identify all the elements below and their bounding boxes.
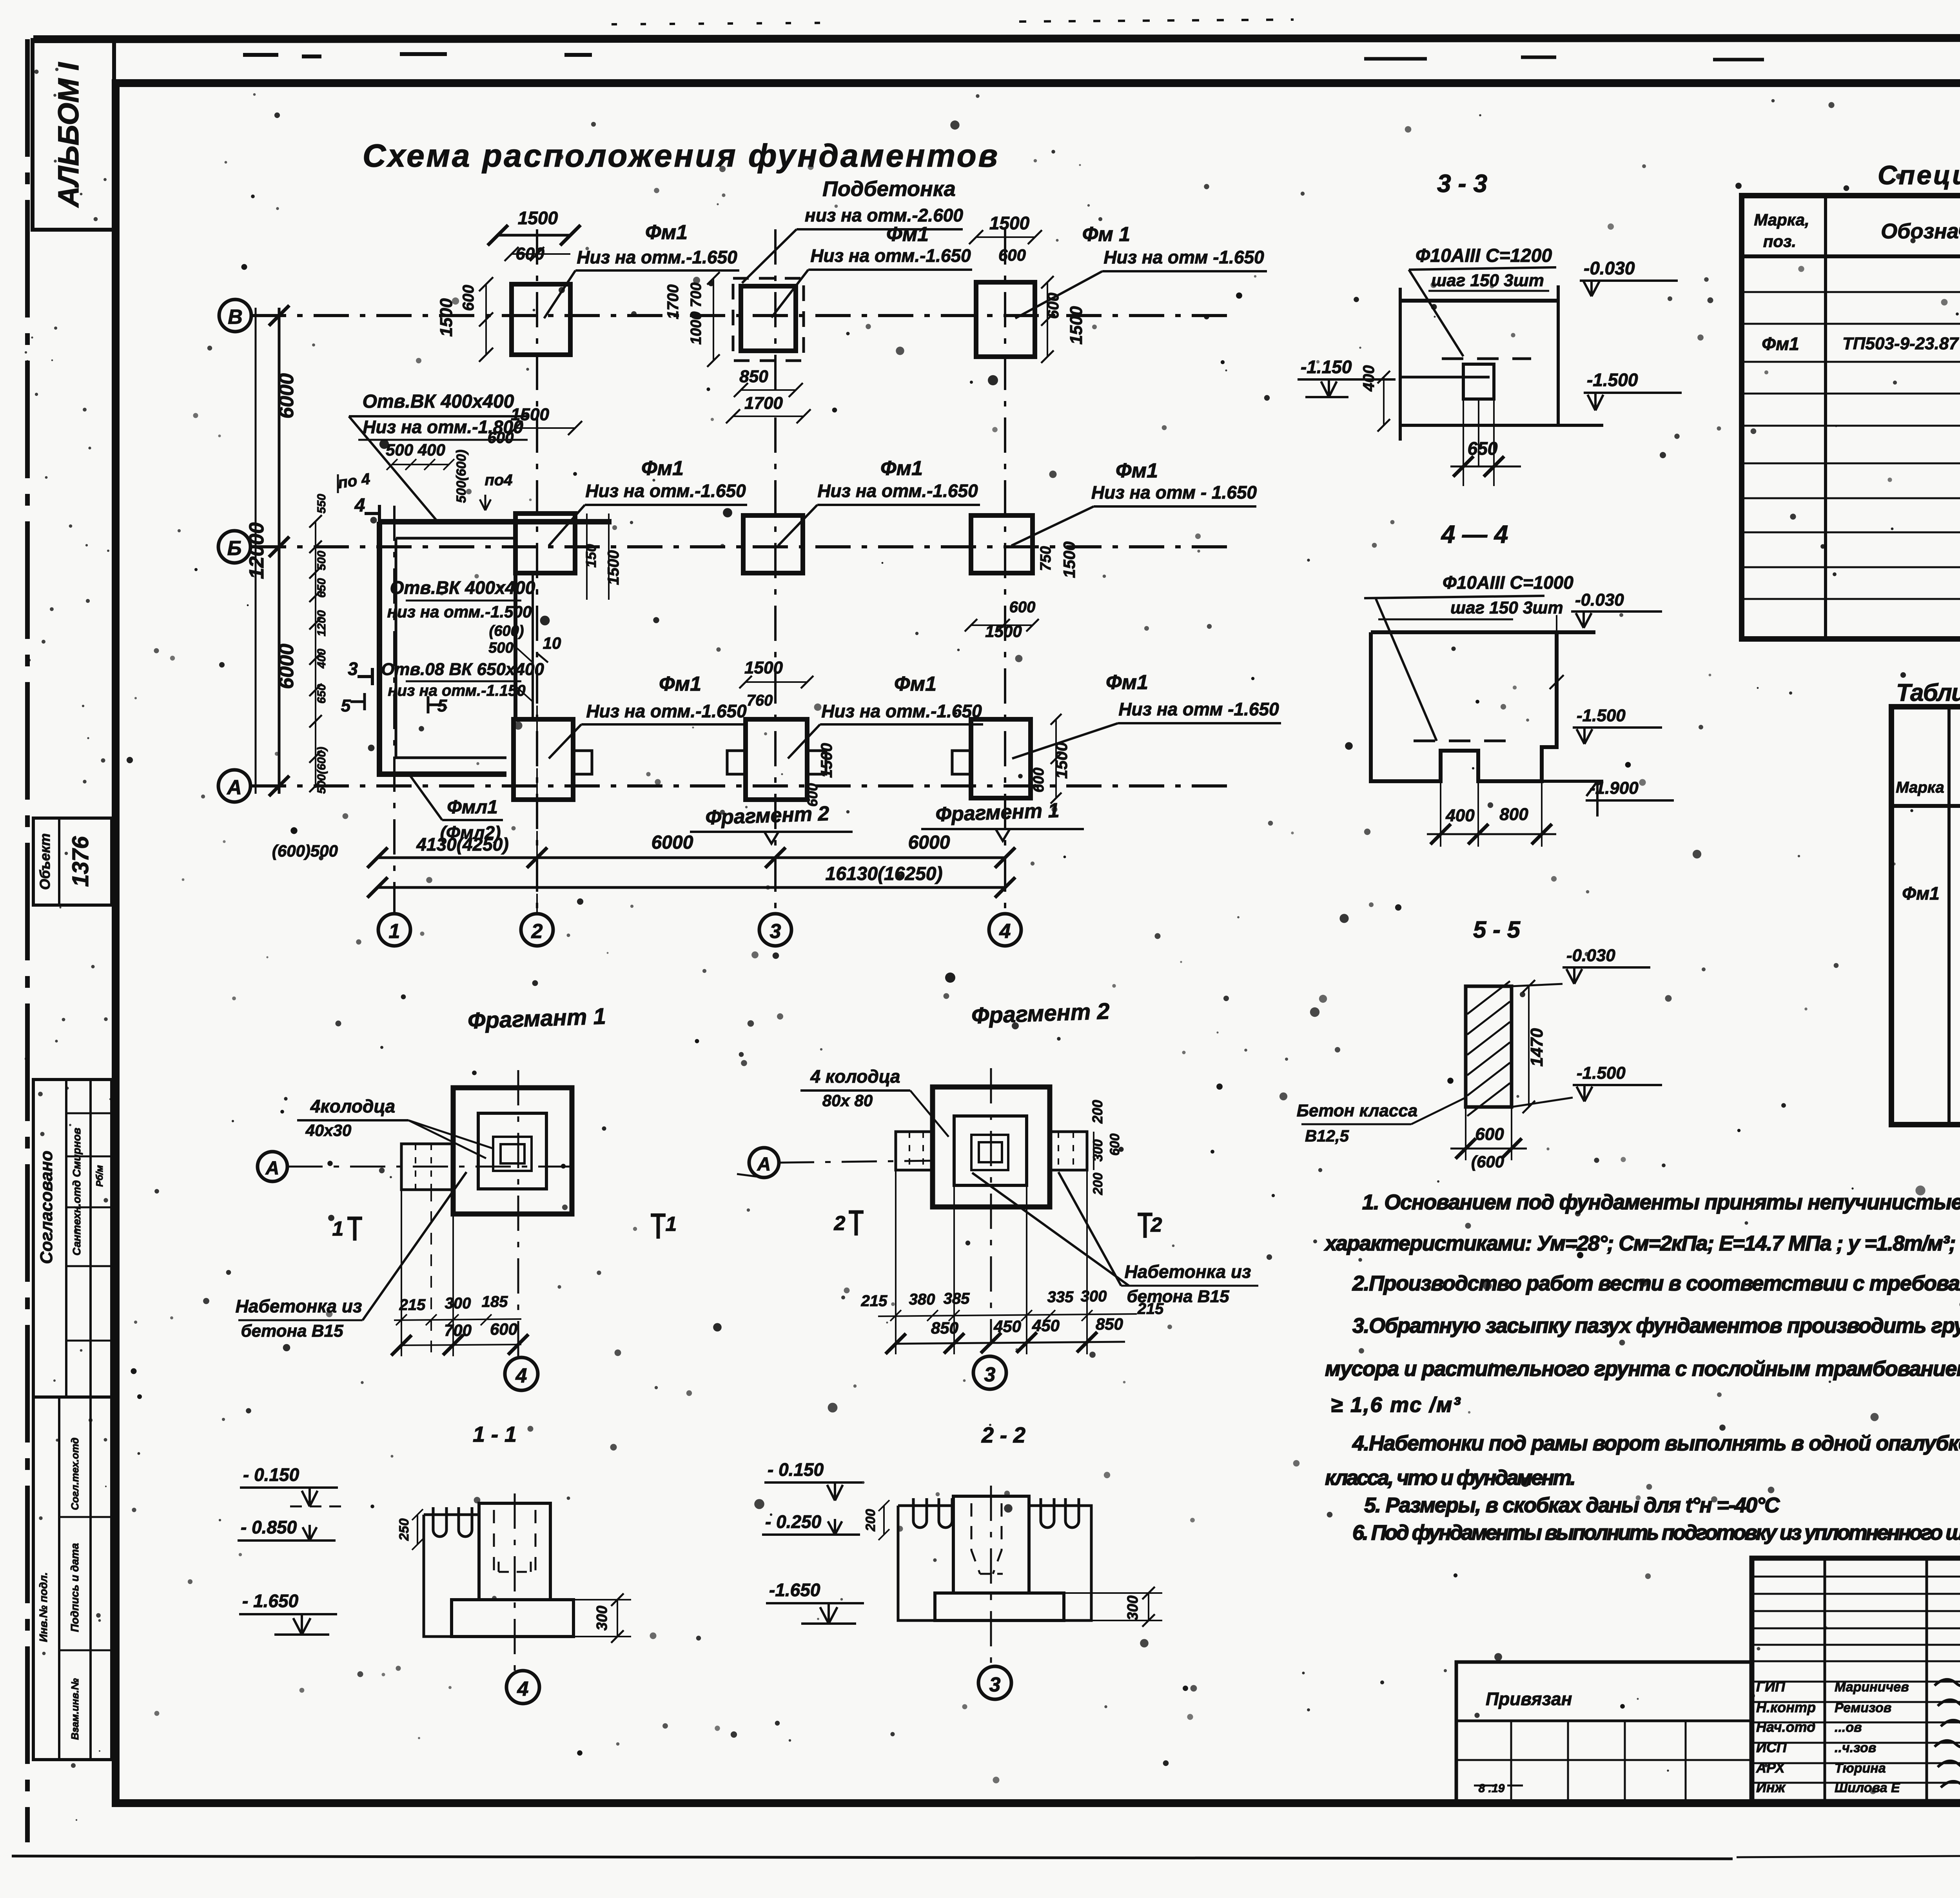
svg-text:450: 450 xyxy=(993,1317,1021,1335)
svg-text:Ф10АIII С=1200: Ф10АIII С=1200 xyxy=(1416,245,1552,266)
axis bubble В xyxy=(219,299,251,332)
svg-text:300: 300 xyxy=(1091,1140,1105,1162)
svg-text:850: 850 xyxy=(1096,1315,1123,1333)
svg-text:185: 185 xyxy=(482,1293,508,1310)
section 1-1 column xyxy=(479,1503,550,1600)
svg-text:4.Набетонки под рамы ворот вып: 4.Набетонки под рамы ворот выполнять в о… xyxy=(1352,1432,1960,1455)
svg-text:Низ на отм.-1.800: Низ на отм.-1.800 xyxy=(363,417,523,437)
foundation Фм1 at Б/4 xyxy=(971,515,1033,573)
svg-text:Согл.тех.отд: Согл.тех.отд xyxy=(69,1437,81,1510)
svg-text:-0.030: -0.030 xyxy=(1566,946,1615,965)
column line 3 xyxy=(774,229,777,914)
svg-text:...ов: ...ов xyxy=(1835,1720,1862,1735)
foundation Фм1 at В/3 with подбетонка xyxy=(733,278,804,361)
foundation Фм1 at А/4 xyxy=(971,719,1031,798)
svg-text:16130(16250): 16130(16250) xyxy=(826,864,943,884)
svg-text:- 1.650: - 1.650 xyxy=(242,1591,299,1611)
svg-text:Ф10АIII С=1000: Ф10АIII С=1000 xyxy=(1443,572,1573,593)
svg-text:650: 650 xyxy=(315,684,328,704)
svg-text:1. Основанием под фундаменты п: 1. Основанием под фундаменты приняты неп… xyxy=(1362,1190,1960,1214)
svg-text:Фм1: Фм1 xyxy=(659,673,701,695)
foundation Фм1 at Б/3 xyxy=(743,515,803,573)
svg-text:1500: 1500 xyxy=(1060,541,1078,578)
secondary dim chain near building xyxy=(315,521,316,788)
bottom dimension line 16130 xyxy=(377,886,1005,889)
svg-text:150: 150 xyxy=(583,544,599,568)
scan dotted marks top xyxy=(612,23,843,24)
привязан table frame xyxy=(1456,1662,1752,1802)
section 4-4 leader xyxy=(1376,599,1437,741)
svg-text:2.Производство работ вести в с: 2.Производство работ вести в соответстви… xyxy=(1352,1272,1960,1295)
svg-text:1500: 1500 xyxy=(818,743,835,778)
svg-text:500: 500 xyxy=(315,551,328,570)
svg-text:≥ 1,6 тс /м³: ≥ 1,6 тс /м³ xyxy=(1331,1393,1461,1417)
section 2-2 centerline xyxy=(990,1486,992,1666)
svg-text:200: 200 xyxy=(863,1509,878,1532)
section 3-3 slab outline xyxy=(1399,288,1402,441)
title block signature squiggles xyxy=(1935,1678,1960,1686)
svg-text:-1.650: -1.650 xyxy=(769,1580,820,1600)
svg-text:Шилова Е: Шилова Е xyxy=(1835,1780,1900,1795)
svg-text:550: 550 xyxy=(315,494,328,514)
svg-text:600: 600 xyxy=(1107,1134,1122,1156)
svg-text:Инж: Инж xyxy=(1756,1779,1786,1795)
svg-text:Фм1: Фм1 xyxy=(1116,459,1158,482)
sidebar box АЛЬБОМ I xyxy=(33,40,114,230)
foundation Фмл1 at А/2 xyxy=(514,719,573,800)
svg-text:1000 700: 1000 700 xyxy=(688,283,704,345)
svg-text:Б: Б xyxy=(227,537,242,560)
svg-text:2: 2 xyxy=(531,920,543,943)
svg-text:Фрагмант 1: Фрагмант 1 xyxy=(467,1003,606,1034)
fragment 1 набетонка strip plan xyxy=(401,1144,453,1190)
svg-text:500 400: 500 400 xyxy=(386,441,445,459)
svg-text:4 — 4: 4 — 4 xyxy=(1441,520,1508,548)
svg-text:3: 3 xyxy=(770,920,781,943)
svg-text:200: 200 xyxy=(1091,1173,1105,1196)
svg-text:Фм1: Фм1 xyxy=(1762,334,1799,354)
column bubble 3 xyxy=(759,914,791,946)
svg-text:Тюрина: Тюрина xyxy=(1835,1761,1886,1776)
fragment 2 набетонка strips left/right xyxy=(896,1132,933,1170)
foundation Фм1 at А/3 xyxy=(746,719,807,800)
svg-text:250: 250 xyxy=(397,1519,412,1541)
svg-text:300: 300 xyxy=(445,1295,471,1312)
svg-text:- 0.150: - 0.150 xyxy=(243,1464,299,1485)
svg-text:600: 600 xyxy=(460,285,477,311)
svg-text:3: 3 xyxy=(984,1363,996,1386)
svg-text:5 - 5: 5 - 5 xyxy=(1473,916,1521,943)
svg-text:Фм1: Фм1 xyxy=(641,457,684,480)
section 4-4 vertical dim line xyxy=(1556,615,1557,747)
svg-text:Низ на отм.-1.650: Низ на отм.-1.650 xyxy=(577,247,737,267)
title block signature rows upper grid xyxy=(1752,1576,1960,1578)
section 2-2 column bubble 3 xyxy=(978,1666,1011,1699)
svg-text:500(600): 500(600) xyxy=(454,450,469,503)
svg-text:характеристиками: Ум=28°; См=2: характеристиками: Ум=28°; См=2кПа; Е=14.… xyxy=(1324,1232,1960,1255)
section 3-3 leader xyxy=(1409,270,1463,356)
fragment 1 anchor squares xyxy=(493,1137,532,1171)
svg-text:Отв.ВК 400х400: Отв.ВК 400х400 xyxy=(363,391,514,412)
svg-text:(600: (600 xyxy=(1471,1152,1504,1171)
section 3-3 anchor square xyxy=(1463,364,1494,399)
svg-text:(600): (600) xyxy=(489,623,524,639)
title block signature columns xyxy=(1824,1558,1826,1802)
fragment 2 column bubble 3 xyxy=(973,1356,1006,1389)
section 5-5 hatched concrete column xyxy=(1466,986,1512,1107)
svg-text:Фрагмент 1: Фрагмент 1 xyxy=(935,799,1060,826)
section 1-1 rebar hooks xyxy=(433,1507,446,1537)
bottom dimension line 4130/6000/6000 xyxy=(377,856,1005,859)
svg-text:Низ на отм -1.650: Низ на отм -1.650 xyxy=(1103,247,1264,267)
sheet outer top border xyxy=(33,38,1960,39)
svg-text:4: 4 xyxy=(999,920,1011,943)
title block signature rows lower xyxy=(1752,1681,1960,1683)
svg-text:215: 215 xyxy=(399,1296,426,1314)
svg-text:4колодца: 4колодца xyxy=(310,1096,395,1116)
svg-text:В: В xyxy=(228,306,243,328)
svg-text:1500: 1500 xyxy=(989,213,1030,233)
svg-text:300: 300 xyxy=(594,1606,610,1630)
svg-text:Низ на отм - 1.650: Низ на отм - 1.650 xyxy=(1091,482,1257,503)
svg-text:Обозначение: Обозначение xyxy=(1881,220,1960,243)
svg-text:ТП503-9-23.87: ТП503-9-23.87 xyxy=(1842,334,1959,353)
svg-text:Фм1: Фм1 xyxy=(1902,883,1940,904)
svg-text:-0.030: -0.030 xyxy=(1575,590,1624,610)
svg-text:Набетонка из: Набетонка из xyxy=(236,1296,362,1316)
wall pier on column 2 between Б and А xyxy=(514,573,517,721)
svg-text:1200: 1200 xyxy=(315,610,328,636)
dim 1500 above В/2 xyxy=(498,234,570,237)
sheet outer left border xyxy=(25,39,30,1842)
svg-text:700: 700 xyxy=(444,1321,472,1339)
column line 2 xyxy=(536,229,538,914)
column bubble 1 xyxy=(378,914,410,946)
svg-text:1470: 1470 xyxy=(1527,1028,1546,1067)
scan edge marks bottom xyxy=(12,1856,1733,1859)
svg-text:Фм1: Фм1 xyxy=(645,221,688,244)
svg-text:1500: 1500 xyxy=(437,298,456,337)
svg-text:А: А xyxy=(757,1154,771,1175)
svg-text:6000: 6000 xyxy=(275,373,298,419)
svg-text:Низ на отм.-1.650: Низ на отм.-1.650 xyxy=(821,701,982,721)
svg-text:..ч.зов: ..ч.зов xyxy=(1835,1740,1876,1755)
svg-text:5. Размеры, в скобках даны для: 5. Размеры, в скобках даны для t°н =-40°… xyxy=(1364,1493,1780,1517)
svg-text:500(600): 500(600) xyxy=(315,747,328,794)
svg-text:Бетон класса: Бетон класса xyxy=(1297,1101,1418,1120)
svg-text:6000: 6000 xyxy=(275,644,298,689)
column bubble 2 xyxy=(521,914,553,946)
svg-text:300: 300 xyxy=(1125,1595,1141,1620)
svg-text:600: 600 xyxy=(1009,599,1036,616)
sidebar approval stamp Согласовано xyxy=(33,1080,112,1397)
svg-text:Марка: Марка xyxy=(1896,779,1944,796)
svg-text:760: 760 xyxy=(747,692,773,709)
svg-text:1500: 1500 xyxy=(518,208,558,228)
svg-text:-1.500: -1.500 xyxy=(1577,706,1626,725)
svg-text:1500: 1500 xyxy=(605,550,622,585)
svg-text:2: 2 xyxy=(834,1212,846,1235)
section 4-4 body outline xyxy=(1371,632,1595,781)
left vertical dimension line 6000/6000 xyxy=(278,308,281,794)
svg-text:Низ на отм.-1.650: Низ на отм.-1.650 xyxy=(810,245,971,266)
svg-text:4 колодца: 4 колодца xyxy=(810,1066,900,1087)
svg-text:- 0.150: - 0.150 xyxy=(768,1459,824,1480)
left vertical dimension line 12000 xyxy=(255,308,257,794)
svg-text:215: 215 xyxy=(1137,1300,1164,1317)
section 2-2 rebar hooks xyxy=(913,1498,927,1528)
section 1-1 excavation outline xyxy=(424,1515,573,1637)
svg-text:Низ на отм.-1.650: Низ на отм.-1.650 xyxy=(817,481,978,501)
svg-text:800: 800 xyxy=(1499,805,1528,824)
svg-text:40х30: 40х30 xyxy=(305,1121,352,1140)
svg-text:6000: 6000 xyxy=(652,832,693,853)
svg-text:Фрагмент 2: Фрагмент 2 xyxy=(705,802,829,829)
axis line Б xyxy=(251,545,1233,548)
svg-text:Фм1: Фм1 xyxy=(886,223,929,246)
svg-text:Фрагмент 2: Фрагмент 2 xyxy=(971,998,1110,1029)
svg-text:1: 1 xyxy=(332,1218,344,1240)
svg-text:3.Обратную засыпку пазух фунда: 3.Обратную засыпку пазух фундаментов про… xyxy=(1352,1314,1960,1337)
svg-text:400: 400 xyxy=(315,649,328,669)
svg-text:-1.500: -1.500 xyxy=(1577,1063,1626,1083)
svg-text:5: 5 xyxy=(341,696,351,715)
svg-text:1 - 1: 1 - 1 xyxy=(473,1422,517,1446)
svg-text:1700: 1700 xyxy=(744,394,783,413)
svg-text:600: 600 xyxy=(1031,768,1047,792)
svg-text:400: 400 xyxy=(1445,806,1475,825)
svg-text:3: 3 xyxy=(989,1673,1001,1696)
svg-text:АРХ: АРХ xyxy=(1756,1760,1786,1776)
svg-text:600: 600 xyxy=(998,246,1026,264)
column line 4 xyxy=(1004,229,1006,914)
svg-text:1: 1 xyxy=(389,920,400,943)
svg-text:Отв.ВК 400х400: Отв.ВК 400х400 xyxy=(390,577,535,598)
svg-text:Фмл1: Фмл1 xyxy=(447,797,498,818)
svg-text:1376: 1376 xyxy=(68,836,93,887)
svg-text:4: 4 xyxy=(517,1678,529,1700)
axis line В xyxy=(251,314,1233,317)
svg-text:Фм 1: Фм 1 xyxy=(1082,223,1130,246)
axis line А xyxy=(251,784,1233,788)
svg-text:В12,5: В12,5 xyxy=(1305,1127,1349,1145)
fragment 2 column centerline xyxy=(990,1068,992,1345)
svg-text:1: 1 xyxy=(666,1213,677,1236)
column line 1 xyxy=(393,506,396,914)
svg-text:Сантехн.отд Смирнов: Сантехн.отд Смирнов xyxy=(71,1128,83,1256)
fragment 2 anchor squares xyxy=(971,1135,1008,1170)
svg-text:Схема расположения фундамент: Схема расположения фундаментов xyxy=(363,138,998,174)
fragment 2 outer foundation square xyxy=(933,1087,1050,1207)
svg-text:Подпись и дата: Подпись и дата xyxy=(69,1543,81,1632)
svg-text:80х 80: 80х 80 xyxy=(822,1091,873,1110)
fragment 1 outer foundation square xyxy=(453,1088,572,1214)
fragment 1 axis line xyxy=(287,1166,572,1168)
svg-text:Низ на отм.-1.650: Низ на отм.-1.650 xyxy=(586,701,747,721)
svg-text:850: 850 xyxy=(739,367,768,386)
spec table frame xyxy=(1742,196,1960,639)
svg-text:4: 4 xyxy=(354,495,365,516)
svg-text:класса, что и фундамент.: класса, что и фундамент. xyxy=(1325,1466,1576,1490)
svg-text:низ на отм.-1.150: низ на отм.-1.150 xyxy=(388,682,525,699)
svg-text:Объект: Объект xyxy=(37,833,53,890)
foundation Фм1 at В/2 xyxy=(512,284,570,355)
svg-text:Таблица нагрузок на фундамент: Таблица нагрузок на фундаменты xyxy=(1896,679,1960,706)
section 2-2 base slab xyxy=(935,1593,1064,1620)
foundation Фм1 at В/4 xyxy=(976,282,1035,357)
svg-text:380: 380 xyxy=(909,1291,935,1308)
svg-text:600: 600 xyxy=(490,1320,517,1338)
spec table header row xyxy=(1742,254,1960,258)
svg-text:Марка,: Марка, xyxy=(1754,210,1809,229)
svg-text:Низ на отм.-1.650: Низ на отм.-1.650 xyxy=(585,481,746,501)
svg-text:1500: 1500 xyxy=(744,658,783,677)
scan blotches top border xyxy=(243,54,592,56)
svg-text:низ на отм.-1.500: низ на отм.-1.500 xyxy=(387,602,532,621)
svg-text:ИСП: ИСП xyxy=(1756,1739,1787,1755)
svg-text:200: 200 xyxy=(1089,1100,1105,1124)
svg-text:А: А xyxy=(226,776,242,799)
svg-text:750: 750 xyxy=(1038,546,1054,571)
section 2-2 column xyxy=(953,1496,1029,1593)
foundation Фм1 at Б/2 xyxy=(515,514,575,573)
svg-text:215: 215 xyxy=(861,1292,887,1310)
axis bubble А xyxy=(218,770,250,802)
svg-text:мусора и растительного грунта: мусора и растительного грунта с послойны… xyxy=(1325,1357,1960,1381)
axis bubble Б xyxy=(218,531,250,563)
column bubble 4 xyxy=(989,914,1021,946)
svg-text:-0.030: -0.030 xyxy=(1584,258,1635,278)
svg-text:Инв.№ подл.: Инв.№ подл. xyxy=(37,1572,49,1642)
fragment 1 column bubble 4 xyxy=(505,1357,538,1390)
svg-text:3: 3 xyxy=(348,659,358,679)
svg-text:бетона В15: бетона В15 xyxy=(241,1321,343,1341)
svg-text:-1.500: -1.500 xyxy=(1587,370,1638,390)
svg-text:Фм1: Фм1 xyxy=(1106,671,1148,694)
svg-text:12000: 12000 xyxy=(245,523,268,579)
svg-text:500: 500 xyxy=(488,640,513,656)
svg-text:Привязан: Привязан xyxy=(1486,1689,1572,1709)
section 1-1 centerline xyxy=(514,1493,516,1671)
svg-text:- 0.850: - 0.850 xyxy=(241,1517,297,1537)
svg-text:Фм1: Фм1 xyxy=(880,457,923,480)
sidebar box Подпись и дата / Инв № xyxy=(33,1397,112,1760)
svg-text:шаг 150 3шт: шаг 150 3шт xyxy=(1450,598,1563,617)
svg-text:600: 600 xyxy=(1475,1125,1504,1144)
svg-text:-1.150: -1.150 xyxy=(1301,357,1352,377)
fragment 1 inner square xyxy=(478,1113,546,1189)
svg-text:6. Под фундаменты выполнить по: 6. Под фундаменты выполнить подготовку и… xyxy=(1352,1521,1960,1544)
title block frame xyxy=(1752,1558,1960,1802)
svg-text:8 .19: 8 .19 xyxy=(1479,1782,1505,1795)
svg-text:10: 10 xyxy=(543,634,561,652)
svg-text:Фм1: Фм1 xyxy=(894,673,936,695)
loads table frame xyxy=(1891,707,1960,1125)
svg-text:1500: 1500 xyxy=(1067,306,1086,345)
svg-text:6000: 6000 xyxy=(908,832,950,853)
svg-text:2 - 2: 2 - 2 xyxy=(981,1423,1025,1447)
svg-text:Мариничев: Мариничев xyxy=(1835,1680,1909,1695)
loads table header bottom xyxy=(1891,804,1960,808)
svg-text:(600)500: (600)500 xyxy=(272,842,338,860)
svg-text:400: 400 xyxy=(1360,365,1377,392)
svg-text:низ на отм.-2.600: низ на отм.-2.600 xyxy=(805,205,963,225)
svg-text:385: 385 xyxy=(944,1290,970,1307)
fragment 1 axis А bubble xyxy=(258,1152,287,1181)
svg-text:2: 2 xyxy=(1151,1214,1162,1236)
svg-text:А: А xyxy=(265,1158,279,1179)
svg-text:ГИП: ГИП xyxy=(1756,1678,1786,1695)
svg-text:Рб/м: Рб/м xyxy=(94,1165,105,1187)
svg-text:Подбетонка: Подбетонка xyxy=(822,177,956,201)
building wall outline (thick L) xyxy=(379,522,612,774)
svg-text:Согласовано: Согласовано xyxy=(37,1150,56,1264)
svg-text:1700: 1700 xyxy=(664,285,682,319)
section 2-2 excavation outline xyxy=(898,1506,1091,1620)
svg-text:4: 4 xyxy=(515,1365,527,1387)
fragment 2 axis А bubble xyxy=(749,1148,779,1178)
svg-text:Ремизов: Ремизов xyxy=(1835,1700,1891,1715)
svg-text:335: 335 xyxy=(1047,1288,1074,1306)
sidebar box Объект 1376 xyxy=(33,818,112,905)
svg-text:300: 300 xyxy=(1081,1288,1107,1305)
section 1-1 column bubble 4 xyxy=(506,1671,539,1704)
svg-text:Н.контр: Н.контр xyxy=(1756,1699,1816,1715)
svg-text:(Фмл2): (Фмл2) xyxy=(440,822,501,843)
building wall inner line xyxy=(396,538,515,758)
svg-text:- 0.250: - 0.250 xyxy=(765,1512,822,1532)
svg-text:поз.: поз. xyxy=(1763,232,1796,250)
svg-text:Нач.отд: Нач.отд xyxy=(1756,1719,1815,1735)
svg-text:Спецификация к схеме расположе: Спецификация к схеме расположения xyxy=(1878,160,1960,190)
svg-text:Низ на отм -1.650: Низ на отм -1.650 xyxy=(1118,699,1279,719)
svg-text:Отв.08 ВК 650х400: Отв.08 ВК 650х400 xyxy=(381,660,544,679)
svg-text:по4: по4 xyxy=(485,472,512,489)
svg-text:шаг 150 3шт: шаг 150 3шт xyxy=(1431,271,1544,290)
fragment 1 column centerline xyxy=(517,1070,519,1357)
fragment 2 inner square xyxy=(954,1116,1027,1185)
svg-text:Набетонка из: Набетонка из xyxy=(1125,1261,1251,1282)
svg-text:3 - 3: 3 - 3 xyxy=(1437,169,1487,198)
svg-text:650: 650 xyxy=(315,578,328,598)
section 1-1 base slab xyxy=(452,1600,573,1637)
